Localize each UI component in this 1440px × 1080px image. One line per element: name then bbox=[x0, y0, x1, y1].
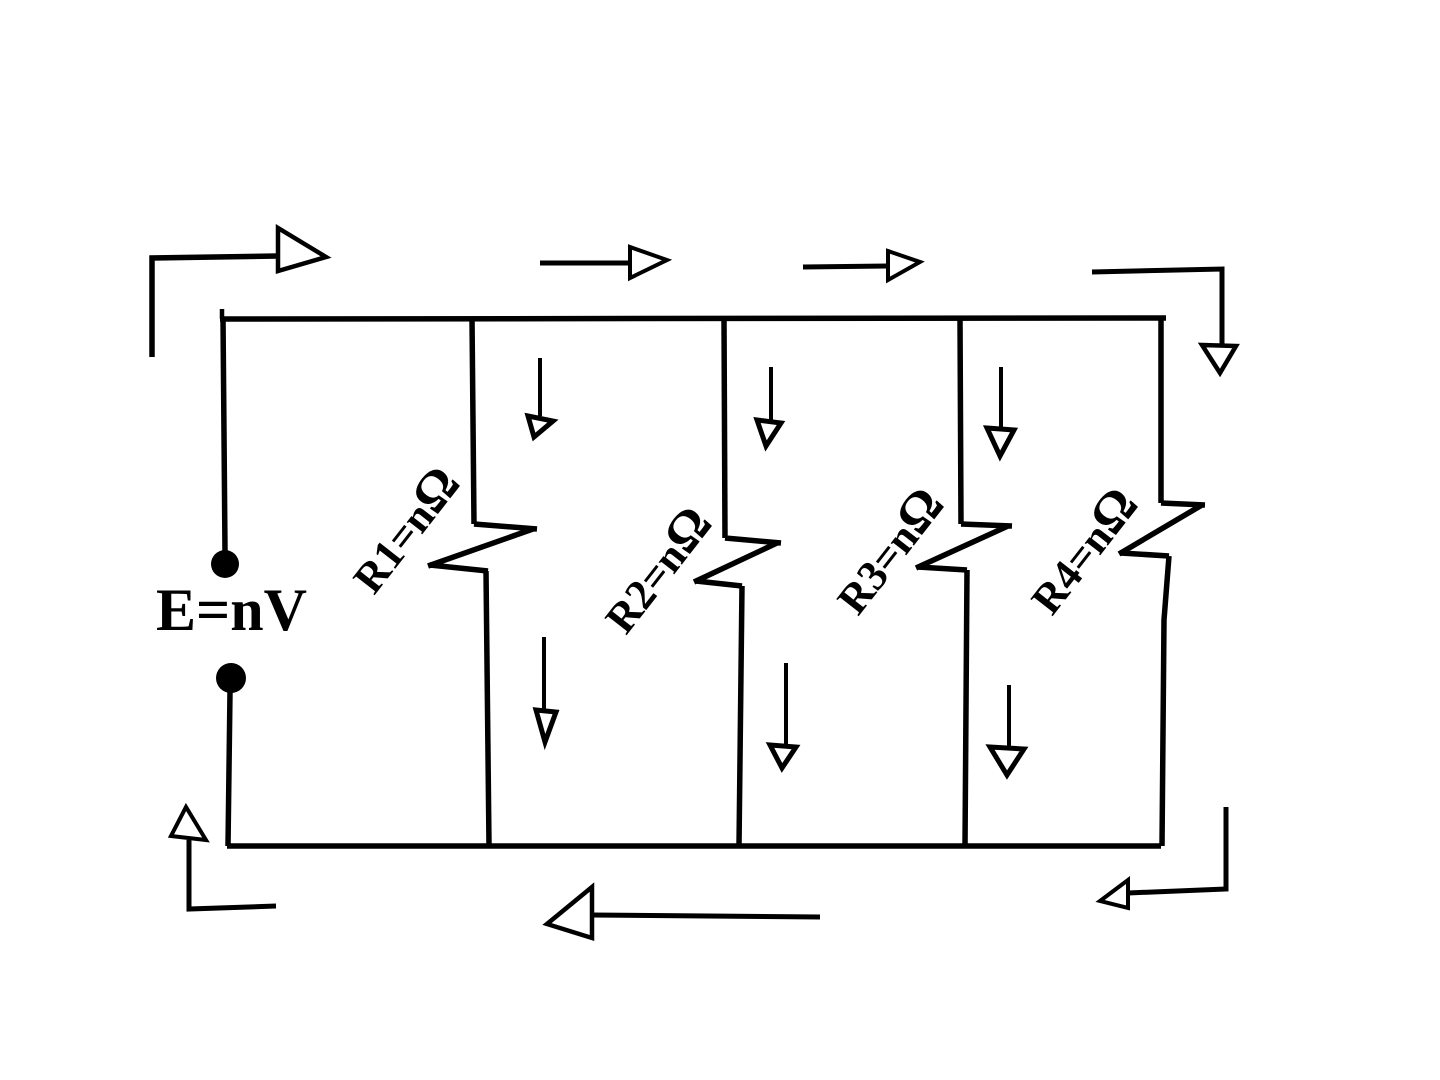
branch current arrow upper 2, head bbox=[757, 420, 781, 446]
resistor R1 label bbox=[339, 456, 472, 603]
wire: right bus upper (R4 branch) bbox=[1158, 318, 1164, 503]
battery terminal dot top bbox=[211, 550, 239, 578]
wire: R1 branch lower bbox=[486, 571, 489, 845]
wire: R4 branch lower bbox=[1162, 556, 1169, 846]
battery terminal dot bottom bbox=[216, 663, 246, 693]
resistor R3 zigzag bbox=[916, 524, 1012, 570]
current arrow: top-right corner, head bbox=[1202, 345, 1236, 373]
current arrow: top-left corner, head bbox=[278, 228, 326, 271]
branch current arrow lower 2, head bbox=[770, 745, 796, 768]
wire: top bus bbox=[220, 318, 1166, 319]
wire: R3 branch upper bbox=[960, 318, 961, 524]
current arrow: top middle 1, head bbox=[630, 247, 667, 278]
wire: top-left corner tick bbox=[220, 309, 225, 319]
resistor R3 label bbox=[823, 477, 956, 624]
branch current arrow upper 1, shaft bbox=[538, 358, 542, 416]
current arrow: bottom-left corner, shaft bbox=[189, 840, 276, 909]
wire: R2 branch upper bbox=[724, 318, 725, 538]
branch current arrow lower 1, head bbox=[536, 710, 556, 742]
current arrow: top middle 2, shaft bbox=[803, 266, 888, 267]
branch current arrow upper 3, shaft bbox=[999, 367, 1003, 428]
svg-text:R2=nΩ: R2=nΩ bbox=[591, 496, 724, 643]
branch current arrow lower 1, shaft bbox=[542, 637, 546, 712]
wire: R2 branch lower bbox=[739, 586, 742, 846]
svg-text:R1=nΩ: R1=nΩ bbox=[339, 456, 472, 603]
current arrow: bottom middle, head bbox=[547, 887, 592, 938]
branch current arrow upper 1, head bbox=[528, 416, 553, 437]
branch current arrow lower 3, head bbox=[990, 747, 1024, 775]
wire: battery bottom lead bbox=[228, 692, 230, 846]
wire: R1 branch upper bbox=[472, 318, 474, 524]
current arrow: top middle 1, shaft bbox=[540, 261, 630, 266]
wire: R3 branch lower bbox=[965, 570, 967, 846]
current arrow: bottom-left corner, head bbox=[171, 807, 206, 840]
branch current arrow lower 2, shaft bbox=[784, 663, 788, 746]
wire: battery top lead bbox=[223, 317, 225, 551]
current arrow: bottom-right corner, shaft bbox=[1128, 807, 1226, 893]
resistor R1 zigzag bbox=[428, 524, 537, 571]
resistor R2 label bbox=[591, 496, 724, 643]
current arrow: bottom-right corner, head bbox=[1100, 880, 1128, 908]
svg-text:R3=nΩ: R3=nΩ bbox=[823, 477, 956, 624]
branch current arrow upper 2, shaft bbox=[769, 367, 773, 422]
current arrow: top-left corner, shaft bbox=[152, 256, 278, 357]
current arrow: top-right corner, shaft bbox=[1092, 269, 1222, 344]
resistor R2 zigzag bbox=[694, 538, 781, 586]
wire: bottom bus bbox=[227, 843, 1161, 849]
branch current arrow upper 3, head bbox=[987, 428, 1014, 456]
resistor R4 label bbox=[1017, 477, 1150, 624]
branch current arrow lower 3, shaft bbox=[1007, 685, 1011, 746]
resistor R4 zigzag bbox=[1119, 503, 1205, 556]
svg-text:E=nV: E=nV bbox=[156, 577, 307, 643]
current arrow: top middle 2, head bbox=[888, 251, 920, 280]
current arrow: bottom middle, shaft bbox=[592, 915, 820, 917]
